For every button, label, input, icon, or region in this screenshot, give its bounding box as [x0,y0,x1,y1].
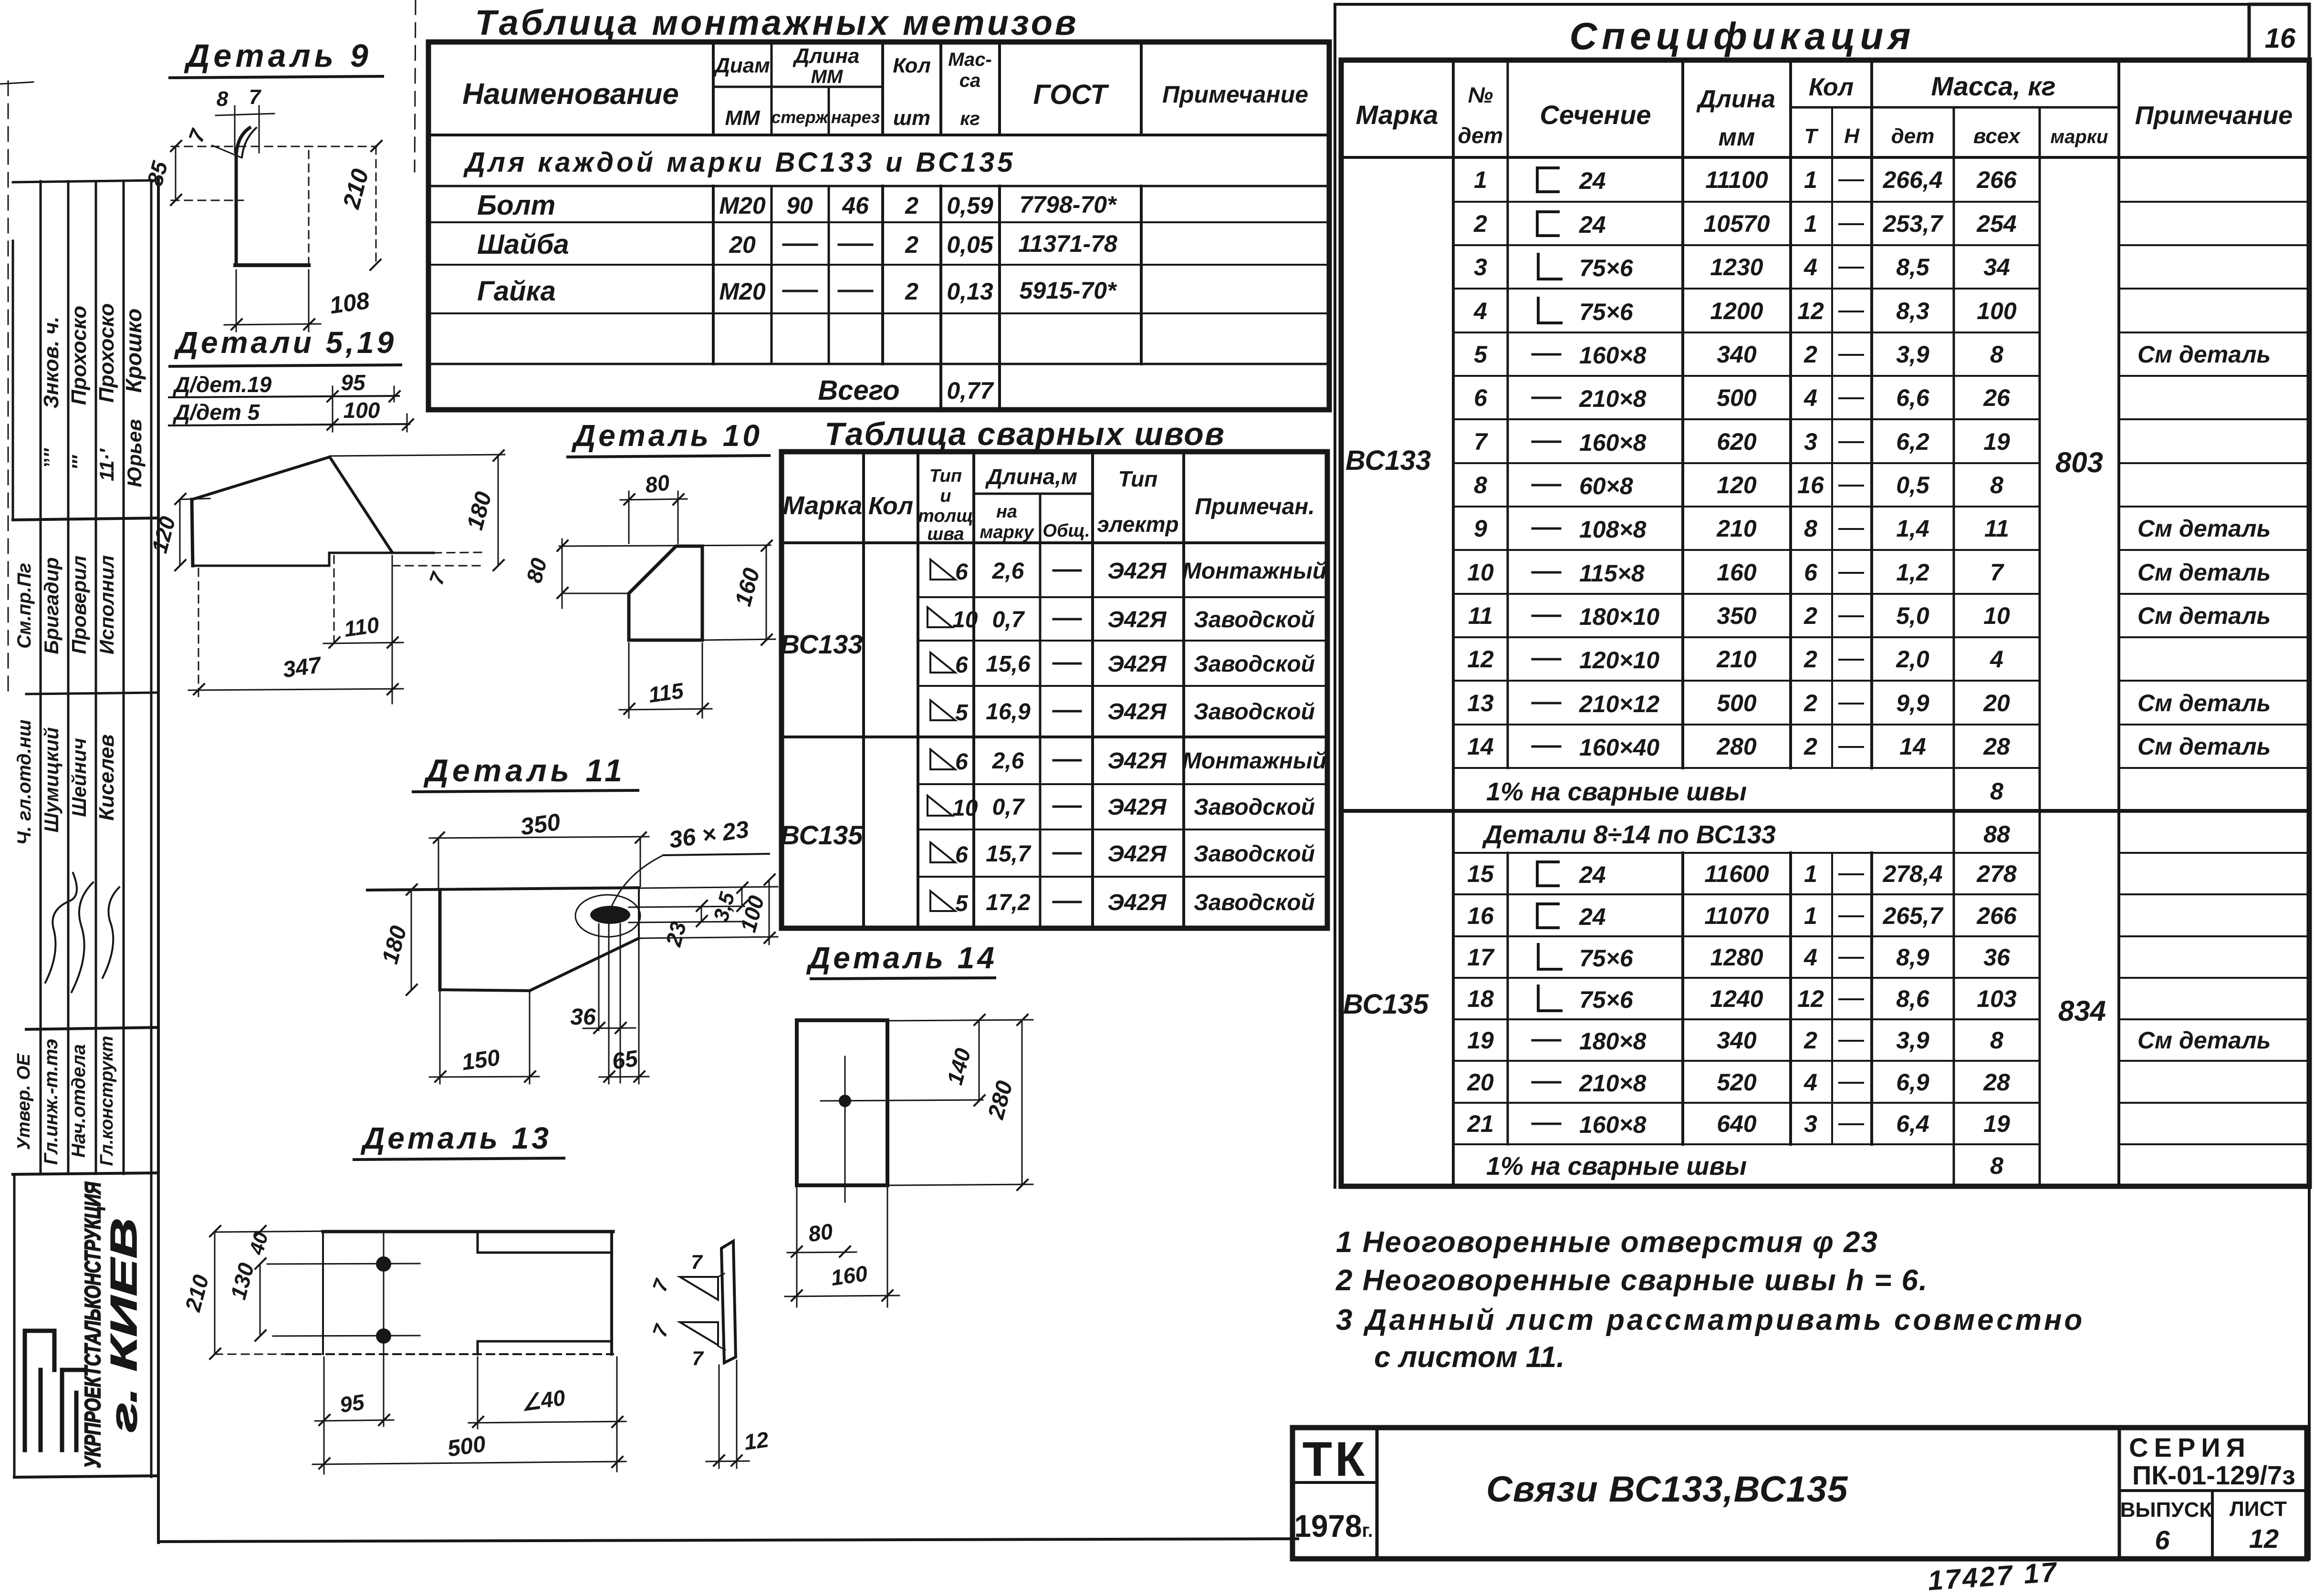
svg-text:Т: Т [1804,124,1819,148]
svg-text:ВЫПУСК: ВЫПУСК [2120,1498,2212,1522]
svg-text:19: 19 [1983,428,2010,455]
fold mark dashed [415,0,416,172]
weld header bottom [782,541,1327,544]
svg-text:Киселев: Киселев [95,734,118,820]
svg-text:6,6: 6,6 [1896,384,1930,411]
svg-text:12: 12 [2249,1523,2279,1554]
svg-text:24: 24 [1579,903,1606,930]
svg-text:Прохоско: Прохоско [95,303,118,403]
svg-text:Заводской: Заводской [1194,699,1315,725]
svg-text:4: 4 [1803,384,1817,411]
weld mark bar [721,1241,736,1363]
svg-text:3: 3 [1804,428,1817,455]
svg-text:′′′: ′′′ [68,455,90,470]
svg-text:120×10: 120×10 [1579,647,1659,674]
svg-text:Спецификация: Спецификация [1570,15,1916,57]
svg-text:11371-78: 11371-78 [1018,230,1117,257]
svg-text:Тип: Тип [1118,466,1158,491]
svg-text:16: 16 [2265,23,2296,54]
svg-text:нарез: нарез [831,107,880,127]
svg-text:1% на сварные швы: 1% на сварные швы [1486,1152,1747,1181]
svg-text:6,2: 6,2 [1896,428,1929,455]
svg-text:9: 9 [1474,515,1487,542]
svg-text:210: 210 [1716,646,1757,673]
weld flag 1 [680,1277,718,1300]
svg-text:11100: 11100 [1705,166,1768,193]
svg-text:См деталь: См деталь [2137,515,2271,542]
stamp bottom line [14,1476,157,1477]
svg-text:20: 20 [1467,1069,1494,1096]
svg-text:Примечание: Примечание [1162,81,1308,108]
svg-text:15,6: 15,6 [986,652,1031,677]
svg-text:Длина,м: Длина,м [985,464,1077,489]
svg-text:17427 17: 17427 17 [1927,1556,2059,1596]
svg-text:См деталь: См деталь [2137,690,2271,716]
svg-text:Детали 8÷14 по ВС133: Детали 8÷14 по ВС133 [1482,820,1776,849]
svg-text:7: 7 [1990,559,2004,586]
svg-text:См деталь: См деталь [2137,559,2271,586]
svg-text:Кол: Кол [1809,73,1854,101]
svg-text:347: 347 [281,653,323,683]
spec header bottom [1341,156,2309,159]
svg-text:265,7: 265,7 [1882,902,1943,929]
svg-text:8,6: 8,6 [1896,985,1930,1012]
svg-text:500: 500 [1717,690,1757,716]
svg-text:Шайба: Шайба [477,229,569,260]
svg-text:2: 2 [905,231,918,258]
montage row lines [428,185,1329,187]
svg-text:8,3: 8,3 [1896,298,1929,324]
svg-text:ВС135: ВС135 [1343,989,1429,1020]
svg-text:10: 10 [952,607,978,632]
svg-text:11: 11 [1468,602,1493,629]
svg-text:180×10: 180×10 [1579,603,1659,630]
svg-text:120: 120 [1717,472,1757,498]
svg-text:278,4: 278,4 [1882,860,1942,887]
svg-text:5: 5 [955,700,969,725]
svg-text:шва: шва [927,524,964,544]
svg-text:Примечан.: Примечан. [1195,494,1314,519]
svg-text:7: 7 [648,1321,673,1340]
svg-text:3,9: 3,9 [1896,1027,1929,1054]
svg-text:108×8: 108×8 [1579,516,1647,543]
svg-text:16,9: 16,9 [986,699,1031,725]
svg-text:1240: 1240 [1710,985,1763,1012]
svg-text:5915-70*: 5915-70* [1020,277,1117,304]
detail 14 plate [797,1020,887,1185]
svg-text:8: 8 [217,87,229,111]
svg-text:1: 1 [1804,166,1817,193]
svg-text:г. КИЕВ: г. КИЕВ [103,1218,145,1432]
svg-text:Наименование: Наименование [462,78,679,111]
svg-text:6: 6 [955,842,968,868]
svg-text:3: 3 [1804,1110,1817,1137]
detail 13 plate [323,1230,613,1233]
svg-text:210: 210 [1716,515,1757,542]
d5/19 extension verticals [332,386,334,432]
svg-text:1280: 1280 [1710,944,1763,971]
svg-text:266,4: 266,4 [1882,166,1942,193]
svg-text:20: 20 [1983,690,2010,716]
svg-text:са: са [959,70,981,91]
detail 10 shape [629,546,702,640]
svg-text:Связи ВС133,ВС135: Связи ВС133,ВС135 [1486,1469,1848,1510]
svg-text:на: на [996,502,1017,522]
svg-text:28: 28 [1983,1069,2010,1096]
svg-text:180×8: 180×8 [1579,1028,1647,1055]
svg-text:180: 180 [462,489,497,532]
svg-text:6: 6 [955,560,968,585]
svg-text:0,13: 0,13 [947,278,993,305]
svg-text:17,2: 17,2 [986,890,1031,915]
centre divider vertical [1334,4,1336,1187]
svg-text:Проверил: Проверил [68,556,90,654]
svg-text:Э42Я: Э42Я [1108,890,1167,915]
svg-text:500: 500 [446,1431,487,1462]
svg-text:7: 7 [692,1347,704,1369]
svg-text:12: 12 [1797,985,1824,1012]
svg-text:7: 7 [249,85,262,109]
svg-text:1978г.: 1978г. [1294,1508,1373,1544]
svg-text:Заводской: Заводской [1194,607,1315,632]
svg-text:100: 100 [1977,298,2017,324]
welding table [781,416,1327,928]
svg-text:Заводской: Заводской [1194,841,1315,867]
svg-text:1% на сварные швы: 1% на сварные швы [1486,777,1747,806]
svg-text:278: 278 [1976,860,2017,887]
svg-text:См деталь: См деталь [2137,733,2271,760]
svg-text:ˮ′′: ˮ′′ [41,447,62,467]
svg-text:60×8: 60×8 [1579,473,1633,499]
svg-text:1 Неоговоренные отверстия φ 2: 1 Неоговоренные отверстия φ 23 [1336,1226,1878,1259]
left margin dashed edge [8,81,9,696]
svg-text:24: 24 [1579,211,1606,238]
svg-text:75×6: 75×6 [1579,945,1634,972]
svg-text:160×8: 160×8 [1579,1111,1647,1138]
svg-text:350: 350 [1717,602,1757,629]
svg-text:11070: 11070 [1704,902,1769,929]
svg-text:Нач.отдела: Нач.отдела [68,1044,89,1158]
svg-text:266: 266 [1976,902,2017,929]
detail 9 dim 210 [375,146,377,265]
svg-text:Диам: Диам [713,54,770,77]
svg-text:дет: дет [1458,123,1503,148]
detail 11 hole construction lines [598,924,600,1030]
svg-text:110: 110 [343,612,381,642]
svg-text:21: 21 [1467,1110,1494,1137]
svg-text:180: 180 [377,923,412,966]
detail sketches [142,38,1033,1474]
svg-text:280: 280 [1716,733,1757,760]
svg-text:См деталь: См деталь [2137,341,2271,368]
svg-text:6: 6 [955,653,968,678]
svg-text:2 Неоговоренные сварные швы: 2 Неоговоренные сварные швы h = 6. [1335,1264,1928,1297]
svg-text:Кол: Кол [893,54,931,77]
svg-text:13: 13 [1467,690,1494,716]
svg-text:12: 12 [742,1427,770,1455]
svg-text:803: 803 [2055,446,2103,478]
svg-text:4: 4 [1990,646,2003,673]
svg-text:6,4: 6,4 [1896,1110,1929,1137]
svg-text:80: 80 [807,1219,834,1247]
svg-text:14: 14 [1899,733,1926,760]
stamp top line [13,180,157,182]
svg-text:3 Данный лист рассматривать: 3 Данный лист рассматривать совместно [1336,1304,2085,1337]
stamp row line 4 [13,1173,157,1174]
svg-text:ММ: ММ [811,66,844,87]
montage column lines header [712,42,715,135]
svg-text:12: 12 [1797,298,1824,324]
svg-text:УКРПРОЕКТСТАЛЬКОНСТРУКЦИЯ: УКРПРОЕКТСТАЛЬКОНСТРУКЦИЯ [80,1181,105,1468]
svg-text:5: 5 [1474,341,1488,368]
spec section line [1341,809,2309,813]
svg-text:16: 16 [1797,472,1824,498]
spec header subsplit [1791,106,2119,109]
svg-text:2: 2 [1803,1027,1817,1054]
svg-text:10570: 10570 [1703,210,1770,237]
svg-text:Марка: Марка [783,491,863,520]
svg-text:Болт: Болт [477,190,555,221]
svg-text:24: 24 [1579,861,1606,888]
detail 11 plate [367,888,639,890]
svg-text:210: 210 [337,166,374,212]
stamp row line 1 [13,518,157,520]
svg-text:36: 36 [1983,944,2011,971]
svg-text:Э42Я: Э42Я [1108,841,1167,867]
svg-text:марку: марку [980,522,1034,542]
svg-text:103: 103 [1977,985,2017,1012]
svg-text:11·′: 11·′ [95,448,118,481]
svg-text:2,6: 2,6 [992,559,1024,584]
top frame right half [1335,3,2309,6]
svg-text:350: 350 [519,808,562,840]
svg-text:7798-70*: 7798-70* [1020,191,1117,218]
svg-text:0,77: 0,77 [947,377,994,404]
svg-text:254: 254 [1976,210,2016,237]
svg-text:толщ: толщ [918,506,973,526]
svg-text:Юрьев: Юрьев [123,419,146,487]
svg-text:Длина: Длина [1696,85,1775,113]
svg-text:Заводской: Заводской [1194,890,1315,915]
left stamp [13,180,157,1477]
svg-text:Деталь 14: Деталь 14 [806,941,997,975]
detail 9 hidden edge dashed [308,151,310,265]
svg-text:90: 90 [786,192,813,219]
svg-text:Масса, кг: Масса, кг [1931,71,2055,101]
svg-text:Тип: Тип [929,466,962,486]
weld flag 2 [680,1322,718,1345]
svg-text:160×8: 160×8 [1579,429,1647,456]
svg-text:19: 19 [1983,1110,2010,1137]
svg-text:№: № [1468,83,1493,107]
svg-text:0,7: 0,7 [992,795,1025,820]
stamp row line 2 [26,693,157,694]
svg-text:10: 10 [1983,602,2010,629]
svg-text:Э42Я: Э42Я [1108,795,1167,820]
svg-text:5: 5 [955,891,969,916]
svg-text:Э42Я: Э42Я [1108,699,1167,725]
svg-text:ЛИСТ: ЛИСТ [2230,1497,2287,1521]
svg-text:2: 2 [1803,690,1817,716]
svg-text:210: 210 [180,1272,213,1315]
svg-text:всех: всех [1973,124,2021,148]
svg-text:95: 95 [338,1389,366,1418]
welding table outer [782,452,1327,928]
svg-text:80: 80 [521,555,552,585]
svg-text:с листом 11.: с листом 11. [1374,1341,1565,1374]
svg-text:0,05: 0,05 [947,231,994,258]
svg-text:М20: М20 [719,192,765,219]
svg-text:1200: 1200 [1710,298,1763,324]
svg-text:160: 160 [829,1261,869,1290]
page number box [2249,4,2309,59]
svg-text:520: 520 [1717,1069,1757,1096]
svg-text:2: 2 [905,192,918,219]
montage table outer border [428,42,1329,410]
svg-text:20: 20 [729,231,756,258]
svg-text:ВС135: ВС135 [781,820,864,850]
svg-text:15: 15 [1467,860,1494,887]
svg-text:и: и [940,486,951,506]
svg-text:7: 7 [425,569,450,588]
svg-text:2: 2 [905,278,918,305]
svg-text:75×6: 75×6 [1579,255,1634,281]
svg-text:8: 8 [1804,515,1817,542]
detail 9 top dashed line [171,146,377,147]
svg-text:Сечение: Сечение [1540,100,1651,130]
svg-text:мм: мм [1719,124,1755,151]
svg-text:1: 1 [1804,860,1817,887]
svg-text:Заводской: Заводской [1194,652,1315,677]
svg-text:Деталь 9: Деталь 9 [184,38,372,74]
org logo glyph [25,1331,85,1450]
svg-text:1: 1 [1804,210,1817,237]
svg-text:280: 280 [983,1078,1018,1122]
svg-text:Гл.инж.-т.тэ: Гл.инж.-т.тэ [41,1039,62,1165]
svg-text:834: 834 [2058,995,2106,1027]
svg-text:340: 340 [1717,1027,1757,1054]
svg-text:Шумицкий: Шумицкий [40,727,63,833]
svg-text:500: 500 [1717,384,1757,411]
svg-text:Э42Я: Э42Я [1108,607,1167,632]
svg-text:7: 7 [1474,428,1488,455]
spec outer border [1341,60,2309,1186]
svg-text:210×12: 210×12 [1579,691,1659,717]
svg-text:Для каждой марки ВС133 и В: Для каждой марки ВС133 и ВС135 [463,147,1016,178]
svg-text:7: 7 [184,125,210,145]
svg-text:Бригадир: Бригадир [40,557,63,654]
svg-text:Мас-: Мас- [948,49,992,70]
svg-text:15,7: 15,7 [986,841,1032,867]
svg-text:4: 4 [1473,298,1487,324]
svg-text:Монтажный: Монтажный [1182,748,1326,774]
montage header subsplit [713,86,883,88]
svg-text:75×6: 75×6 [1579,299,1634,325]
title block outer [1293,1428,2307,1559]
svg-text:26: 26 [1983,384,2011,411]
weld length subsplit [974,493,1093,495]
svg-text:8,9: 8,9 [1896,944,1929,971]
svg-text:9,9: 9,9 [1896,690,1929,716]
svg-text:Примечание: Примечание [2135,101,2293,130]
svg-text:8: 8 [1990,1152,2003,1179]
svg-text:4: 4 [1803,1069,1817,1096]
svg-text:электр: электр [1097,512,1178,537]
svg-text:80: 80 [644,470,671,498]
svg-text:Таблица сварных швов: Таблица сварных швов [824,416,1225,452]
svg-text:1: 1 [1474,166,1487,193]
detail 9 profile [236,128,250,265]
svg-text:Э42Я: Э42Я [1108,559,1167,584]
svg-text:19: 19 [1467,1027,1494,1054]
svg-text:Детали 5,19: Детали 5,19 [174,325,396,360]
detail 13 bolt circles [383,1232,385,1426]
svg-text:10: 10 [1467,559,1494,586]
svg-text:210×8: 210×8 [1579,1070,1647,1097]
svg-text:140: 140 [942,1046,975,1088]
svg-text:8,5: 8,5 [1896,254,1930,280]
svg-text:11600: 11600 [1704,860,1769,887]
svg-text:2,0: 2,0 [1896,646,1929,673]
spec verticals [1452,60,1455,1186]
svg-text:340: 340 [1717,341,1757,368]
svg-text:дет: дет [1891,124,1935,148]
svg-text:4: 4 [1803,254,1817,280]
svg-text:85: 85 [142,158,173,188]
stamp outer verticals [12,241,14,520]
svg-text:24: 24 [1579,167,1606,194]
svg-text:1: 1 [1804,902,1817,929]
svg-text:М20: М20 [719,278,765,305]
svg-text:Кол: Кол [868,492,913,520]
svg-text:34: 34 [1983,254,2010,280]
svg-text:18: 18 [1467,985,1494,1012]
svg-text:ПК-01-129/7з: ПК-01-129/7з [2132,1460,2295,1490]
svg-text:2: 2 [1473,210,1487,237]
weld rows vc133 [928,559,1326,916]
svg-text:2: 2 [1803,602,1817,629]
svg-text:Гл.конструкт: Гл.конструкт [97,1036,117,1166]
svg-text:12: 12 [1467,646,1494,673]
svg-text:Деталь 13: Деталь 13 [360,1121,552,1155]
svg-text:Исполнил: Исполнил [95,555,118,654]
spec row lines body [1453,202,2309,1144]
svg-text:Д/дет 5: Д/дет 5 [172,400,261,425]
svg-text:6,9: 6,9 [1896,1069,1929,1096]
svg-text:1,2: 1,2 [1896,559,1929,586]
svg-text:0,7: 0,7 [992,607,1025,632]
svg-text:2: 2 [1803,733,1817,760]
svg-text:Длина: Длина [792,44,859,68]
tk cell [1376,1428,1379,1559]
detail 14 centerlines [844,1057,846,1202]
svg-text:2: 2 [1803,341,1817,368]
svg-text:16: 16 [1467,902,1494,929]
svg-text:36: 36 [570,1005,596,1030]
svg-text:6: 6 [2155,1525,2170,1555]
svg-text:кг: кг [960,108,980,129]
svg-text:36 × 23: 36 × 23 [667,816,751,853]
svg-text:См деталь: См деталь [2137,1027,2271,1054]
spec data rows [1467,166,2271,1181]
svg-text:6: 6 [1474,384,1488,411]
svg-text:14: 14 [1467,733,1494,760]
svg-text:2: 2 [1803,646,1817,673]
svg-text:шт: шт [893,106,930,130]
svg-text:160×40: 160×40 [1579,734,1659,761]
svg-text:3: 3 [1474,254,1487,280]
svg-text:210×8: 210×8 [1579,385,1647,412]
